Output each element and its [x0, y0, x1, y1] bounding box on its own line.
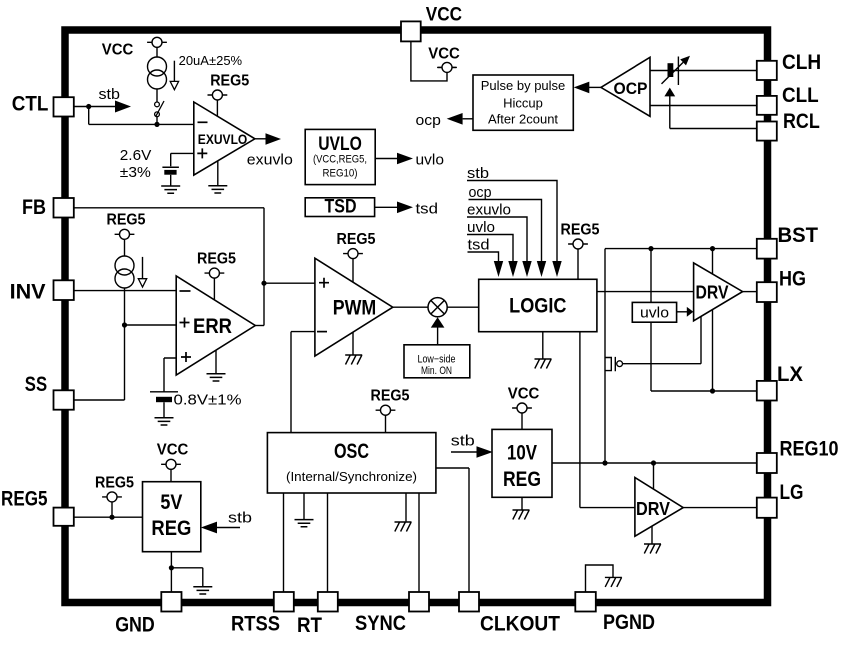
svg-text:stb: stb [451, 433, 475, 450]
svg-text:REG5: REG5 [561, 221, 600, 238]
svg-text:DRV: DRV [696, 283, 729, 303]
svg-text:VCC: VCC [508, 385, 540, 402]
svg-text:TSD: TSD [325, 197, 357, 218]
svg-text:CLH: CLH [782, 51, 821, 74]
svg-text:RCL: RCL [783, 110, 820, 133]
svg-text:exuvlo: exuvlo [247, 152, 293, 169]
svg-text:(Internal/Synchronize): (Internal/Synchronize) [286, 470, 417, 484]
svg-text:tsd: tsd [416, 201, 439, 218]
svg-text:exuvlo: exuvlo [467, 201, 511, 218]
svg-text:uvlo: uvlo [640, 305, 669, 322]
svg-text:LG: LG [780, 481, 804, 504]
svg-text:CTL: CTL [12, 93, 49, 116]
svg-text:Hiccup: Hiccup [503, 96, 543, 111]
svg-text:uvlo: uvlo [416, 152, 445, 169]
svg-text:REG: REG [503, 468, 541, 491]
svg-text:10V: 10V [507, 442, 537, 465]
svg-text:Pulse by pulse: Pulse by pulse [481, 78, 566, 93]
svg-text:RT: RT [297, 614, 322, 637]
svg-text:±3%: ±3% [120, 164, 151, 181]
svg-text:stb: stb [99, 86, 121, 103]
svg-text:Low−side: Low−side [418, 354, 456, 366]
svg-text:REG10): REG10) [323, 168, 358, 180]
svg-text:REG5: REG5 [371, 388, 410, 405]
svg-text:REG5: REG5 [197, 251, 236, 268]
svg-text:OCP: OCP [614, 79, 648, 98]
svg-text:REG5: REG5 [337, 231, 376, 248]
svg-text:CLKOUT: CLKOUT [480, 613, 560, 636]
svg-text:ERR: ERR [193, 315, 232, 338]
svg-text:VCC: VCC [428, 46, 460, 63]
svg-text:UVLO: UVLO [318, 134, 362, 155]
svg-text:SS: SS [25, 373, 47, 396]
svg-text:tsd: tsd [468, 236, 490, 253]
svg-text:20uA±25%: 20uA±25% [179, 53, 243, 68]
svg-text:stb: stb [467, 165, 489, 182]
svg-text:CLL: CLL [782, 84, 819, 107]
svg-text:VCC: VCC [102, 42, 134, 59]
svg-text:After 2count: After 2count [488, 112, 558, 127]
svg-text:2.6V: 2.6V [120, 147, 152, 164]
svg-text:REG: REG [151, 517, 191, 540]
svg-text:SYNC: SYNC [355, 612, 406, 635]
svg-text:0.8V±1%: 0.8V±1% [174, 392, 242, 409]
svg-text:LX: LX [777, 363, 803, 386]
svg-text:ocp: ocp [469, 184, 492, 201]
svg-text:REG10: REG10 [780, 438, 839, 461]
svg-text:5V: 5V [160, 491, 182, 514]
svg-text:Min. ON: Min. ON [421, 365, 452, 377]
svg-text:VCC: VCC [157, 442, 189, 459]
svg-text:EXUVLO: EXUVLO [198, 132, 248, 147]
svg-text:INV: INV [10, 281, 46, 304]
svg-text:LOGIC: LOGIC [509, 295, 566, 318]
svg-text:stb: stb [228, 510, 252, 527]
svg-text:PGND: PGND [603, 611, 655, 634]
svg-text:HG: HG [779, 268, 806, 291]
svg-text:BST: BST [778, 224, 819, 247]
svg-text:REG5: REG5 [107, 212, 146, 229]
svg-text:VCC: VCC [426, 5, 462, 26]
svg-text:FB: FB [22, 196, 46, 219]
svg-text:uvlo: uvlo [467, 219, 495, 236]
svg-text:PWM: PWM [333, 297, 377, 320]
svg-text:DRV: DRV [636, 499, 670, 519]
svg-text:REG5: REG5 [95, 474, 134, 491]
svg-text:(VCC,REG5,: (VCC,REG5, [313, 154, 367, 166]
svg-text:ocp: ocp [416, 112, 441, 129]
svg-text:GND: GND [115, 614, 155, 637]
svg-text:REG5: REG5 [210, 72, 249, 89]
svg-text:RTSS: RTSS [231, 613, 280, 636]
svg-text:REG5: REG5 [1, 488, 48, 511]
svg-text:OSC: OSC [334, 440, 369, 463]
